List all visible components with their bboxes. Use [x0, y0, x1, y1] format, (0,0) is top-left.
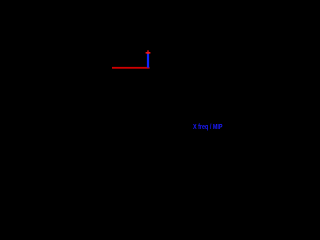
svg-text:X freq / MIP: X freq / MIP [193, 124, 223, 131]
